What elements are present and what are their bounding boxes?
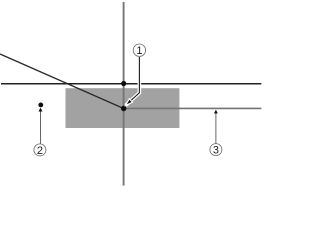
leader 3 arrowhead [214, 110, 218, 114]
node dot at diagonal junction [121, 106, 126, 111]
leader 2 line [40, 110, 42, 144]
svg-text:1: 1 [136, 45, 142, 57]
point dot for label 2 [38, 103, 43, 108]
label circle 1 [133, 44, 145, 56]
lower horizontal line [124, 107, 262, 109]
vertical center line [123, 2, 125, 186]
diagonal line [0, 54, 124, 109]
leader 1 arrowhead [126, 99, 133, 106]
leader 1 line [130, 57, 139, 101]
horizontal surface line [1, 83, 261, 85]
svg-text:2: 2 [37, 145, 43, 157]
label circle 3 [210, 144, 222, 156]
label circle 2 [34, 144, 46, 156]
node dot on surface line [121, 81, 126, 86]
svg-text:3: 3 [213, 145, 219, 157]
leader 3 line [215, 112, 217, 144]
leader 1 white casing [126, 57, 140, 105]
gray body rectangle [66, 88, 180, 128]
leader 2 arrowhead [39, 108, 43, 112]
